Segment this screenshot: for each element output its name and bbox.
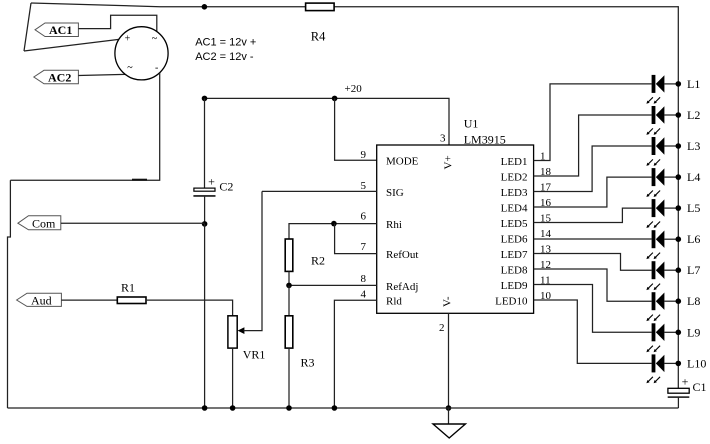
svg-text:L2: L2 [687, 108, 700, 122]
LED L1 [646, 75, 664, 104]
svg-text:L3: L3 [687, 139, 700, 153]
svg-text:U1: U1 [464, 117, 479, 131]
svg-text:LED4: LED4 [501, 202, 528, 214]
svg-text:LED1: LED1 [501, 156, 528, 168]
wire AC1 corner to top rail [24, 3, 31, 51]
wire pin12 to L8 [534, 269, 652, 301]
port Aud [17, 293, 62, 307]
svg-text:L7: L7 [687, 263, 700, 277]
svg-text:LED2: LED2 [501, 171, 528, 183]
LED L2 [646, 106, 664, 135]
svg-text:Com: Com [32, 217, 56, 231]
wire SIG to IC [262, 190, 377, 192]
wire C2 top lead [204, 98, 206, 188]
wire Com to node [61, 222, 205, 224]
svg-text:LED3: LED3 [501, 187, 528, 199]
svg-text:~: ~ [127, 63, 133, 74]
node L6 bus junction [676, 236, 682, 242]
wire L4 to +V bus [664, 176, 678, 178]
wire VR1 bottom to ground bus [232, 348, 234, 408]
svg-text:+20: +20 [345, 83, 363, 95]
svg-text:LED6: LED6 [501, 233, 528, 245]
node L3 bus junction [676, 143, 682, 149]
wire pin15 to L5 [534, 208, 652, 222]
wire R1 to VR1 top [146, 300, 233, 316]
wire L10 to +V bus [664, 362, 678, 364]
resistor R4 [306, 3, 335, 43]
wire bottom ground bus [8, 407, 679, 409]
wire L5 to +V bus [664, 207, 678, 209]
resistor R3 [285, 316, 314, 370]
wire C2 bottom lead [204, 197, 206, 224]
LED L10 [646, 354, 664, 383]
wire bridge + diagonal [24, 39, 126, 52]
svg-text:R3: R3 [301, 356, 315, 370]
wire AC1 to bridge [78, 15, 156, 33]
wire top +V rail [31, 3, 678, 7]
svg-text:SIG: SIG [386, 187, 404, 199]
node +20 at MODE [332, 96, 338, 102]
node L10 bus junction [676, 361, 682, 367]
svg-text:2: 2 [439, 322, 445, 334]
wire pin17 to L3 [534, 146, 652, 192]
svg-text:LED5: LED5 [501, 218, 528, 230]
wire +V right bus down to C1 [677, 6, 679, 388]
node bus at R3 [286, 405, 292, 411]
node bus at Rld [332, 405, 338, 411]
svg-text:~: ~ [152, 34, 158, 45]
svg-text:R4: R4 [311, 30, 326, 44]
wire L2 to +V bus [664, 114, 678, 116]
node +20 at C2 [202, 96, 208, 102]
wire stub artifact on ground rail [132, 179, 147, 181]
LED L5 [646, 199, 664, 228]
resistor R1 [117, 281, 146, 304]
wire Rhi to R2 [289, 224, 377, 239]
svg-text:LM3915: LM3915 [464, 133, 506, 147]
node L9 bus junction [676, 330, 682, 336]
svg-text:R2: R2 [311, 254, 325, 268]
svg-text:Rhi: Rhi [386, 219, 402, 231]
svg-text:LED9: LED9 [501, 280, 528, 292]
wire VR1 wiper to SIG [244, 191, 263, 330]
svg-text:V+: V+ [443, 155, 455, 169]
node L1 bus junction [676, 81, 682, 87]
svg-text:RefOut: RefOut [386, 249, 418, 261]
wire pin1 to L1 [534, 84, 652, 161]
svg-text:L10: L10 [687, 356, 706, 370]
svg-text:LED10: LED10 [495, 295, 528, 307]
svg-text:4: 4 [361, 288, 367, 300]
svg-text:AC1 = 12v +: AC1 = 12v + [195, 37, 256, 49]
wire ground stub [448, 408, 450, 424]
svg-text:Aud: Aud [31, 293, 52, 307]
svg-text:AC2 = 12v -: AC2 = 12v - [195, 51, 254, 63]
svg-text:C2: C2 [219, 180, 233, 194]
svg-text:+: + [208, 175, 215, 189]
wire pin13 to L7 [534, 254, 652, 271]
port AC2 [34, 70, 79, 84]
wire left ground rail [8, 180, 11, 408]
node top rail junction [202, 4, 208, 10]
svg-text:L9: L9 [687, 325, 700, 339]
node L2 bus junction [676, 112, 682, 118]
wire +20 bus [205, 98, 450, 145]
capacitor C1 [668, 374, 707, 398]
svg-text:Rld: Rld [386, 295, 402, 307]
wire pin16 to L4 [534, 177, 652, 207]
LED L8 [646, 292, 664, 321]
svg-text:MODE: MODE [386, 156, 419, 168]
node bus at VR1 [230, 405, 236, 411]
wire bridge - down [10, 73, 159, 181]
potentiometer VR1 [228, 316, 265, 362]
wire L9 to +V bus [664, 331, 678, 333]
svg-text:L6: L6 [687, 232, 700, 246]
svg-text:6: 6 [361, 211, 367, 223]
svg-text:7: 7 [361, 241, 367, 253]
wire Rhi to RefOut [335, 224, 377, 254]
svg-text:C1: C1 [693, 380, 707, 394]
port Com [18, 216, 61, 231]
svg-text:AC1: AC1 [49, 23, 72, 37]
LED L3 [646, 137, 664, 166]
svg-text:R1: R1 [121, 281, 135, 295]
svg-text:5: 5 [361, 180, 367, 192]
svg-text:3: 3 [440, 133, 446, 145]
node L7 bus junction [676, 267, 682, 273]
node RefAdj junction [286, 283, 292, 289]
wire L8 to +V bus [664, 300, 678, 302]
svg-text:LED8: LED8 [501, 264, 528, 276]
wire Aud to R1 [61, 299, 117, 301]
wire R3 top lead [288, 285, 290, 315]
wire C2 node to ground bus [204, 224, 206, 408]
svg-text:L8: L8 [687, 294, 700, 308]
wire R3 bottom to ground bus [288, 348, 290, 408]
op-amp U1 LM3915 body [377, 117, 534, 314]
bridge rectifier circle [115, 27, 168, 80]
wire pin10 to L10 [534, 300, 652, 363]
svg-text:LED7: LED7 [501, 249, 528, 261]
node L8 bus junction [676, 298, 682, 304]
wire pin2 to ground bus [448, 313, 450, 408]
wire R2 bottom to RefAdj [288, 271, 290, 285]
wire L7 to +V bus [664, 269, 678, 271]
capacitor C2 [193, 175, 233, 197]
wire MODE drop [335, 98, 377, 160]
node Com junction [202, 221, 208, 227]
wire pin18 to L2 [534, 115, 652, 176]
ground symbol [433, 424, 465, 438]
node L5 bus junction [676, 205, 682, 211]
svg-text:9: 9 [361, 149, 367, 161]
svg-text:+: + [682, 374, 689, 388]
svg-text:RefAdj: RefAdj [386, 281, 418, 293]
wire C1 bottom lead [677, 398, 679, 408]
wire pin14 to L6 [534, 238, 652, 240]
node ground junction [446, 405, 452, 411]
port AC1 [35, 23, 78, 37]
wire Rld to ground bus [334, 300, 376, 408]
svg-text:+: + [125, 34, 131, 45]
node L4 bus junction [676, 174, 682, 180]
wire L3 to +V bus [664, 145, 678, 147]
wire pin11 to L9 [534, 285, 652, 333]
wire L6 to +V bus [664, 238, 678, 240]
LED L6 [646, 230, 664, 259]
wire AC2 to bridge [78, 74, 125, 75]
wire L1 to +V bus [664, 83, 678, 85]
svg-text:8: 8 [361, 273, 367, 285]
node bus at C2 line [202, 405, 208, 411]
resistor R2 [285, 239, 325, 271]
LED L7 [646, 261, 664, 290]
svg-text:L4: L4 [687, 170, 700, 184]
LED L4 [646, 168, 664, 197]
svg-text:L1: L1 [687, 77, 700, 91]
svg-text:14: 14 [540, 228, 552, 240]
wire RefAdj to IC [289, 284, 377, 286]
svg-text:V-: V- [442, 296, 454, 307]
node Rhi RefOut tie [331, 221, 337, 227]
LED L9 [646, 323, 664, 352]
svg-text:-: - [155, 63, 158, 74]
svg-text:VR1: VR1 [243, 348, 266, 362]
svg-text:AC2: AC2 [48, 71, 71, 85]
svg-text:L5: L5 [687, 201, 700, 215]
